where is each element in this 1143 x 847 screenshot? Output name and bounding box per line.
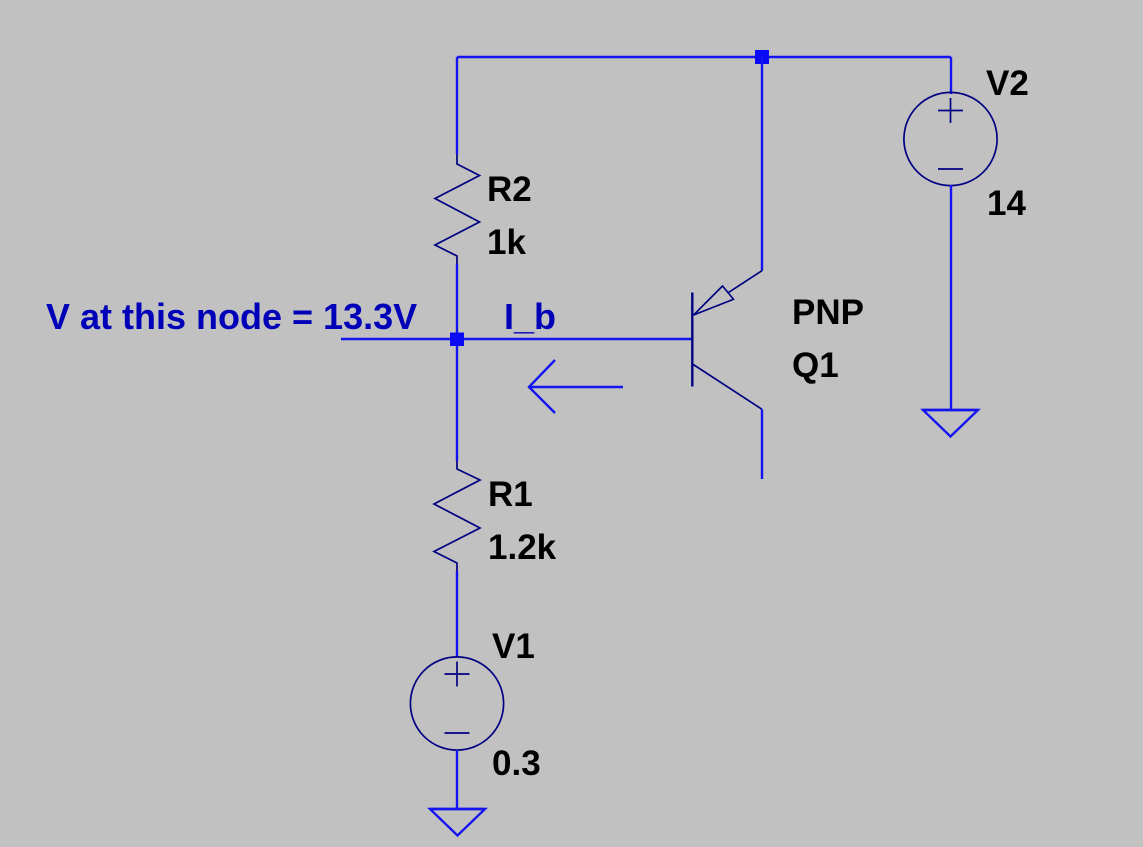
transistor Q1 collector diagonal xyxy=(693,364,763,409)
svg-text:PNP: PNP xyxy=(792,293,864,332)
transistor Q1 emitter diagonal xyxy=(728,270,763,293)
ground symbol bottom (V1) xyxy=(430,809,485,836)
label R2 xyxy=(487,170,532,209)
wire from V1 bottom to ground xyxy=(456,750,458,809)
svg-text:1.2k: 1.2k xyxy=(488,528,557,567)
wire from top rail corner down to V2 plus terminal xyxy=(950,57,952,94)
resistor R1 xyxy=(434,461,480,571)
voltage source V2 circle xyxy=(904,92,997,185)
node annotation text: V at this node = 13.3V xyxy=(46,296,417,337)
voltage source V1 circle xyxy=(410,657,503,750)
svg-text:V2: V2 xyxy=(986,64,1029,103)
svg-text:1k: 1k xyxy=(487,223,526,262)
wire from V2 bottom to ground xyxy=(950,185,952,410)
svg-text:I_b: I_b xyxy=(504,296,556,337)
svg-text:V1: V1 xyxy=(492,627,535,666)
label V1 xyxy=(492,627,535,666)
wire from R2 bottom through node to R1 top xyxy=(456,264,458,461)
ground symbol right (V2) xyxy=(923,410,978,437)
svg-text:R1: R1 xyxy=(488,475,533,514)
svg-text:V at this node = 13.3V: V at this node = 13.3V xyxy=(46,296,417,337)
svg-text:R2: R2 xyxy=(487,170,532,209)
net label I_b xyxy=(504,296,556,337)
label PNP xyxy=(792,293,864,332)
transistor Q1 emitter arrow (PNP, pointing into base) xyxy=(694,286,734,315)
wire vertical from top rail down to R2 xyxy=(456,57,458,154)
value label 1.2k xyxy=(488,528,557,567)
V1 minus sign xyxy=(445,732,470,734)
label Q1 xyxy=(792,346,839,385)
value label 0.3 xyxy=(492,744,541,783)
current direction arrow (I_b, pointing left) xyxy=(529,360,623,413)
wire top horizontal from R2 top to V2 top xyxy=(457,56,951,58)
label R1 xyxy=(488,475,533,514)
wire collector dangling down xyxy=(761,410,763,480)
svg-text:14: 14 xyxy=(987,184,1026,223)
wire node horizontal to Q1 base xyxy=(341,338,692,340)
node junction square xyxy=(450,333,464,347)
V1 plus sign xyxy=(445,662,470,687)
V2 minus sign xyxy=(938,168,963,170)
wire from R1 bottom to V1 top xyxy=(456,571,458,657)
V2 plus sign xyxy=(938,98,963,123)
junction at top rail and emitter wire xyxy=(755,50,769,64)
value label 14 xyxy=(987,184,1026,223)
svg-text:Q1: Q1 xyxy=(792,346,839,385)
label V2 xyxy=(986,64,1029,103)
wire emitter vertical from top rail to Q1 emitter xyxy=(761,57,763,270)
transistor Q1 base bar xyxy=(691,293,693,387)
value label 1k xyxy=(487,223,526,262)
resistor R2 xyxy=(435,154,480,264)
svg-text:0.3: 0.3 xyxy=(492,744,541,783)
